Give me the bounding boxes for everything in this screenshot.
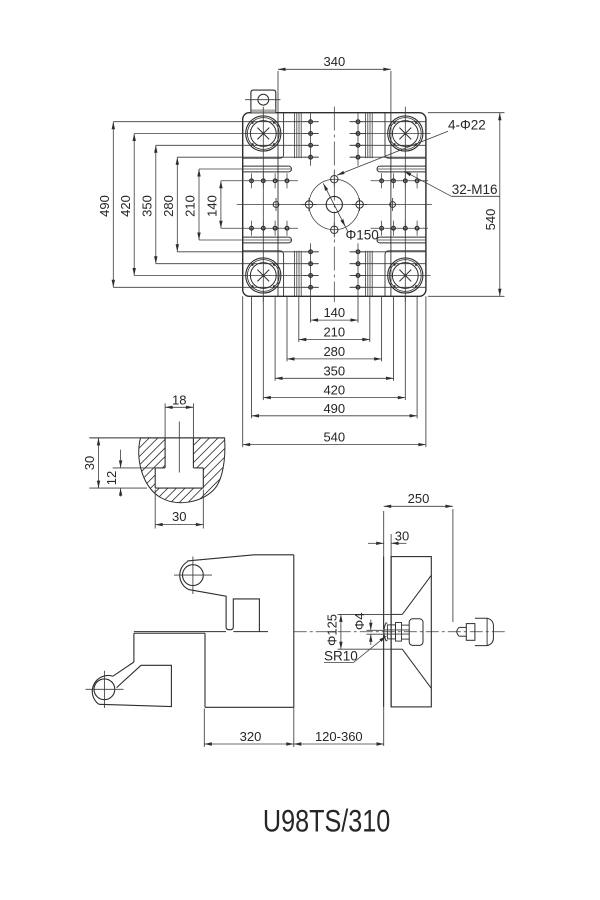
bottom dimension chain 140..540 — [310, 296, 312, 322]
top toggle lug — [180, 561, 189, 589]
svg-text:490: 490 — [97, 195, 112, 217]
slot rows (210) — [199, 168, 291, 170]
svg-text:340: 340 — [324, 54, 346, 69]
moving platen outline — [254, 554, 294, 556]
sprue bushing — [384, 623, 388, 641]
svg-text:320: 320 — [240, 729, 262, 744]
svg-text:540: 540 — [483, 209, 498, 231]
vertical grid lines — [262, 107, 264, 302]
tie-bar holes with X marks — [246, 116, 281, 151]
svg-text:490: 490 — [323, 401, 345, 416]
dimension 340 (top) — [277, 71, 279, 113]
svg-text:Φ4: Φ4 — [352, 612, 367, 630]
dimension 320 — [203, 709, 205, 748]
horizontal T-slots with rounded inner ends — [243, 165, 289, 167]
svg-text:280: 280 — [323, 344, 345, 359]
svg-text:250: 250 — [408, 491, 430, 506]
dimension 120-360 — [294, 743, 384, 745]
T-slot detail view — [60, 392, 312, 528]
svg-text:350: 350 — [140, 195, 155, 217]
dimension 250 — [452, 509, 454, 622]
left dimension chain 490..140 — [112, 122, 114, 288]
vertical T-slot line groups — [294, 113, 296, 159]
svg-text:12: 12 — [104, 471, 119, 485]
svg-text:Φ150: Φ150 — [346, 228, 379, 243]
svg-text:32-M16: 32-M16 — [452, 182, 498, 197]
bolt circle dia 150 — [309, 179, 360, 230]
svg-text:SR10: SR10 — [324, 649, 358, 664]
svg-text:U98TS/310: U98TS/310 — [263, 804, 390, 839]
bolt group rows (140) — [221, 180, 298, 182]
svg-text:540: 540 — [323, 430, 345, 445]
M16 bolt holes: left and right groups — [250, 179, 254, 183]
platen surface line — [89, 437, 224, 439]
vertical centre line (dash-dot) — [333, 107, 335, 303]
svg-text:210: 210 — [183, 195, 198, 217]
svg-text:420: 420 — [323, 383, 345, 398]
small holes on centre row — [273, 202, 279, 208]
svg-text:Φ125: Φ125 — [324, 614, 339, 646]
fixed platen side view — [384, 511, 494, 746]
svg-text:4-Φ22: 4-Φ22 — [448, 117, 486, 132]
machine centre line — [294, 631, 506, 633]
svg-text:420: 420 — [118, 195, 133, 217]
dimension phi125 — [338, 613, 392, 615]
svg-text:30: 30 — [395, 528, 409, 543]
mould face (moving) — [293, 555, 295, 708]
4 locating holes dia 22 on bolt circle — [331, 176, 338, 183]
svg-text:30: 30 — [82, 456, 97, 470]
M16 bolt holes: top and bottom groups — [309, 120, 313, 124]
dimension 30 (slot width) — [154, 490, 156, 529]
dimension 18 — [164, 403, 166, 438]
svg-text:350: 350 — [323, 363, 345, 378]
dimension 30 (depth) — [98, 438, 100, 488]
horizontal centre line — [237, 204, 432, 206]
bottom toggle lug and bracket — [133, 633, 135, 662]
svg-text:18: 18 — [172, 392, 186, 407]
platen front view — [113, 90, 432, 302]
machine side view — [86, 555, 507, 708]
mounting tab with hole (top left) — [251, 90, 276, 113]
dimension 12 — [113, 467, 163, 469]
centre hole — [326, 196, 342, 212]
horizontal grid / extension rows — [113, 121, 318, 123]
nozzle recess cone — [391, 613, 402, 615]
svg-text:280: 280 — [161, 195, 176, 217]
svg-text:140: 140 — [323, 305, 345, 320]
svg-text:30: 30 — [172, 509, 186, 524]
platen mid split lines — [134, 631, 226, 633]
slot centre line — [178, 422, 180, 473]
svg-text:140: 140 — [205, 195, 220, 217]
T-slot profile — [164, 438, 166, 468]
svg-text:120-360: 120-360 — [315, 729, 363, 744]
corner boss outlines — [243, 113, 284, 159]
svg-text:210: 210 — [323, 325, 345, 340]
injection nozzle — [457, 627, 459, 636]
dimension 540 (right side) — [428, 112, 505, 114]
platen plate outline — [243, 113, 426, 297]
